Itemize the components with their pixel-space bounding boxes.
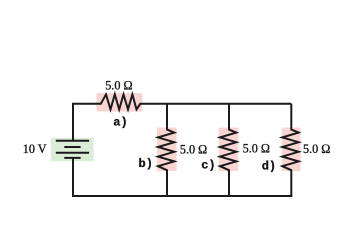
svg-text:d): d) (262, 159, 276, 173)
svg-text:a): a) (113, 115, 127, 129)
svg-text:5.0 Ω: 5.0 Ω (105, 79, 132, 93)
svg-text:5.0 Ω: 5.0 Ω (180, 142, 207, 156)
svg-text:5.0 Ω: 5.0 Ω (303, 142, 330, 156)
svg-text:c): c) (201, 159, 215, 173)
svg-text:b): b) (139, 157, 153, 171)
svg-text:10 V: 10 V (23, 142, 47, 156)
svg-text:5.0 Ω: 5.0 Ω (243, 142, 270, 156)
